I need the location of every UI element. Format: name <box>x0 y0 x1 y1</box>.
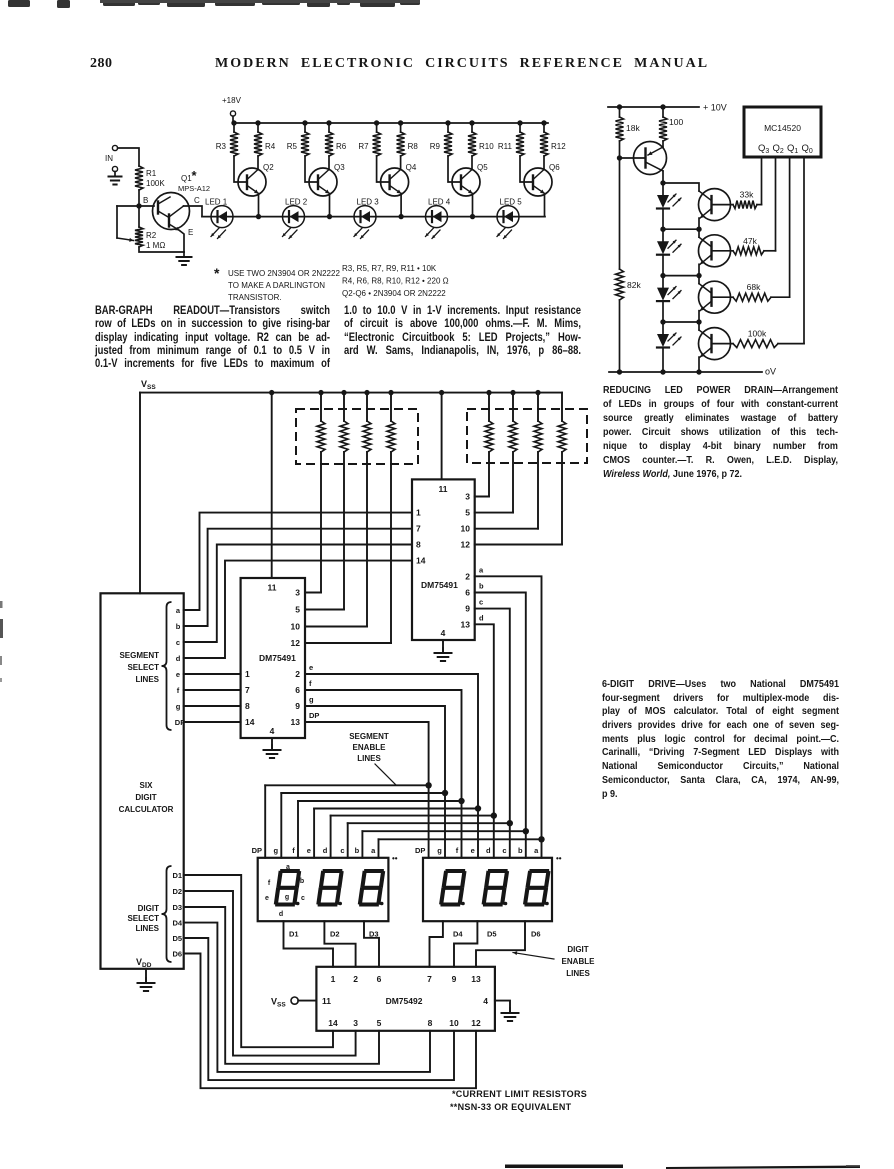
wire R9 to base Q5 <box>448 156 461 182</box>
wire emitter Q4 to LED row <box>400 194 402 217</box>
LED LED 3 <box>354 206 376 228</box>
wire R6 to collector Q3 <box>328 156 330 170</box>
wire segment DP calculator to DM75491 left pin <box>184 721 241 723</box>
wire segment b from DM75491 right <box>475 593 526 832</box>
wire 0V rail <box>609 371 762 373</box>
svg-text:ENABLE: ENABLE <box>562 957 596 966</box>
svg-text:LED 3: LED 3 <box>357 198 380 207</box>
transistor Q1 MPS-A12 darlington <box>153 193 190 230</box>
wire resistor right 2 to DM75491 pin <box>512 452 514 513</box>
brace segment select <box>162 602 172 730</box>
wire resistor left 2 to DM75491 pin <box>343 452 345 610</box>
resistor base 33k <box>712 204 734 206</box>
svg-text:4: 4 <box>270 726 275 736</box>
wire DM75491 left pin 11 to rail <box>269 390 274 395</box>
svg-text:R8: R8 <box>408 142 419 151</box>
svg-text:D6: D6 <box>531 930 541 939</box>
brace digit select <box>162 866 172 962</box>
wire group 3 top <box>663 276 699 284</box>
svg-text:8: 8 <box>416 540 421 550</box>
scan artifact left margin <box>0 601 3 608</box>
LED LED 2 <box>283 206 305 228</box>
light arrows LED 4 <box>426 228 434 237</box>
segment enable bus line f3 <box>298 800 462 802</box>
wire R1 to R2 <box>138 190 140 227</box>
svg-text:18k: 18k <box>626 123 640 133</box>
light arrows LED 1 <box>211 228 219 237</box>
resistor 18k <box>616 117 624 141</box>
wire DM75491 right out 1 <box>475 496 489 498</box>
svg-text:DP: DP <box>309 711 319 720</box>
light arrows LED 3 <box>354 228 362 237</box>
svg-text:+18V: +18V <box>222 96 242 105</box>
wire top +18V rail <box>233 122 548 124</box>
svg-text:3: 3 <box>353 1018 358 1028</box>
svg-text:68k: 68k <box>747 282 761 292</box>
arrow digit enable <box>513 953 554 960</box>
wire emitter Q5 to LED row <box>472 194 474 217</box>
svg-text:••: •• <box>556 854 562 863</box>
wire Vss supply rail <box>140 392 562 394</box>
arrow segment enable <box>375 764 396 785</box>
svg-text:e: e <box>471 846 475 855</box>
svg-text:C: C <box>194 196 200 205</box>
transistor Q5 2N3904 <box>452 168 480 196</box>
wire left branch vertical <box>619 107 621 117</box>
wire digit enable D6 <box>476 921 525 967</box>
seven segment digit 1 <box>282 869 298 873</box>
svg-text:d: d <box>323 846 328 855</box>
resistor R6 220 <box>326 120 331 125</box>
svg-text:f: f <box>268 880 271 887</box>
svg-text:7: 7 <box>416 524 421 534</box>
light arrows LED 1 <box>668 194 676 202</box>
wire R2 wiper to base node <box>117 205 139 207</box>
wire R4 to collector Q2 <box>257 156 259 170</box>
node B base of Q1 <box>136 203 141 208</box>
svg-text:9: 9 <box>452 974 457 984</box>
wire digit D6 to DM75492 <box>184 954 476 1089</box>
ground Q1 emitter <box>183 252 185 257</box>
svg-text:D3: D3 <box>173 903 183 912</box>
svg-text:a: a <box>479 565 484 574</box>
wire Q0 output <box>803 157 805 344</box>
wire Q1 emitter <box>180 231 185 253</box>
svg-text:R1: R1 <box>146 169 157 178</box>
wire digit D4 to DM75492 <box>184 923 430 1072</box>
svg-text:12: 12 <box>291 638 301 648</box>
seven segment digit 6 <box>532 869 548 873</box>
terminal input jack low <box>112 166 117 171</box>
svg-text:100k: 100k <box>748 329 767 339</box>
svg-text:14: 14 <box>245 717 255 727</box>
wire resistor left 1 to DM75491 pin <box>320 452 322 593</box>
scan streak bottom right <box>666 1166 860 1169</box>
wire 82k to 0V rail <box>619 300 621 372</box>
svg-text:LED 4: LED 4 <box>428 198 451 207</box>
svg-text:1: 1 <box>331 974 336 984</box>
svg-text:14: 14 <box>416 556 426 566</box>
svg-text:MPS-A12: MPS-A12 <box>178 184 210 193</box>
wire DM75491 left out 4 <box>305 642 391 644</box>
svg-text:D5: D5 <box>173 934 183 943</box>
display module 2 box <box>423 858 552 921</box>
wire segment f calculator to DM75491 left pin <box>184 689 241 691</box>
svg-text:D4: D4 <box>173 919 183 928</box>
svg-text:LINES: LINES <box>357 754 381 763</box>
svg-text:100K: 100K <box>146 179 165 188</box>
svg-text:R10: R10 <box>479 142 494 151</box>
svg-text:c: c <box>502 846 506 855</box>
svg-text:D1: D1 <box>289 930 299 939</box>
resistor R7 10K <box>374 120 379 125</box>
wire bus 5 to display 2 <box>493 816 495 858</box>
segment enable bus line 5 <box>331 815 494 817</box>
wire digit D3 to DM75492 <box>184 907 379 1064</box>
svg-text:13: 13 <box>461 619 471 629</box>
svg-text:b: b <box>300 878 304 885</box>
svg-text:SELECT: SELECT <box>127 663 159 672</box>
transistor shunt NPN 3 <box>699 281 731 313</box>
resistor base 47k <box>712 250 734 252</box>
seven segment digit 2 <box>325 869 341 873</box>
svg-text:6: 6 <box>377 974 382 984</box>
wire group 4 top <box>663 322 699 330</box>
wire bus 1 to display 2 <box>428 785 430 858</box>
LED 4 of chain <box>657 334 669 347</box>
terminal IN <box>112 145 117 150</box>
svg-text:R6: R6 <box>336 142 347 151</box>
resistor R4 220 <box>255 120 260 125</box>
svg-text:VSS: VSS <box>271 997 286 1009</box>
wire bus 2 to display 2 <box>444 793 446 858</box>
svg-text:f: f <box>309 679 312 688</box>
node LED 4 top <box>660 319 665 324</box>
wire segment d calculator to DM75491 right pin <box>184 561 412 658</box>
svg-text:2: 2 <box>295 669 300 679</box>
wire resistor right 1 to DM75491 pin <box>488 452 490 497</box>
svg-text:USE TWO 2N3904 OR 2N2222: USE TWO 2N3904 OR 2N2222 <box>228 269 340 278</box>
wire digit enable D1 <box>284 921 334 967</box>
ground DM75491 right pin 4 <box>442 640 444 652</box>
svg-text:IN: IN <box>105 154 113 163</box>
svg-text:VDD: VDD <box>136 957 152 969</box>
seven segment digit 3 <box>366 869 382 873</box>
svg-text:12: 12 <box>471 1018 481 1028</box>
svg-text:9: 9 <box>295 701 300 711</box>
svg-text:*CURRENT LIMIT RESISTORS: *CURRENT LIMIT RESISTORS <box>452 1089 587 1099</box>
wire Vss down to calculator <box>139 393 141 594</box>
wire bus 8 to display 2 <box>541 839 543 858</box>
svg-text:TO MAKE A DARLINGTON: TO MAKE A DARLINGTON <box>228 281 325 290</box>
current limit resistor left 3 <box>364 390 369 395</box>
svg-text:ENABLE: ENABLE <box>353 743 387 752</box>
wire R2 bottom <box>139 247 184 252</box>
svg-text:5: 5 <box>465 508 470 518</box>
svg-text:12: 12 <box>461 540 471 550</box>
segment enable bus line 8 <box>379 838 542 840</box>
light arrows LED 4 <box>668 333 676 341</box>
svg-text:R5: R5 <box>287 142 298 151</box>
resistor R9 10K <box>445 120 450 125</box>
svg-text:B: B <box>143 196 148 205</box>
segment enable bus line 7 <box>362 830 525 832</box>
svg-text:13: 13 <box>471 974 481 984</box>
node LED 2 top <box>660 227 665 232</box>
resistor R8 220 <box>398 120 403 125</box>
wire R3 to base Q2 <box>234 156 247 182</box>
svg-text:SELECT: SELECT <box>127 914 159 923</box>
svg-text:82k: 82k <box>627 280 641 290</box>
wire R11 to base Q6 <box>520 156 533 182</box>
wire DM75491 left out 1 <box>305 592 321 594</box>
resistor R2 1M pot <box>135 227 143 247</box>
wire +10V rail <box>608 106 699 108</box>
wire emitter Q3 to LED row <box>329 194 331 217</box>
wire resistor right 3 to DM75491 pin <box>537 452 539 529</box>
wire segment e calculator to DM75491 left pin <box>184 673 241 675</box>
svg-text:e: e <box>309 663 313 672</box>
resistor R11 10K <box>517 120 522 125</box>
svg-text:D1: D1 <box>173 871 183 880</box>
svg-text:9: 9 <box>465 604 470 614</box>
svg-text:R11: R11 <box>498 142 513 151</box>
svg-text:1: 1 <box>245 669 250 679</box>
node LED 1 top <box>660 180 665 185</box>
segment enable bus line DP1 <box>265 784 428 786</box>
svg-text:SEGMENT: SEGMENT <box>119 651 159 660</box>
svg-text:D2: D2 <box>173 887 183 896</box>
wire segment c from DM75491 right <box>475 609 510 824</box>
svg-text:DM75491: DM75491 <box>421 580 458 590</box>
wire bus 3 to display 2 <box>461 801 463 858</box>
current limit resistor left 1 <box>318 390 323 395</box>
wire emitter Q2 to LED row <box>258 194 260 217</box>
header title <box>215 56 709 72</box>
svg-text:DM75492: DM75492 <box>386 996 423 1006</box>
svg-text:e: e <box>176 670 180 679</box>
resistor R3 10K <box>231 120 236 125</box>
svg-text:R9: R9 <box>430 142 441 151</box>
wire group 1 top <box>663 183 699 191</box>
svg-text:TRANSISTOR.: TRANSISTOR. <box>228 293 282 302</box>
wire R7 to base Q4 <box>377 156 390 182</box>
svg-text:8: 8 <box>428 1018 433 1028</box>
svg-text:a: a <box>176 606 181 615</box>
light arrows LED 3 <box>668 287 676 295</box>
wire DM75491 right out 4 <box>475 544 562 546</box>
svg-text:oV: oV <box>765 367 776 377</box>
wire bus 7 to display 1 <box>361 831 363 858</box>
wire emitter Q6 to LED row <box>544 194 546 217</box>
wire bus 6 to display 2 <box>509 823 511 858</box>
svg-text:f: f <box>456 846 459 855</box>
wire bus 4 to display 1 <box>313 809 315 858</box>
transistor Q3 2N3904 <box>309 168 337 196</box>
wire DM75491 right out 3 <box>475 528 538 530</box>
svg-text:11: 11 <box>322 996 331 1006</box>
wire bus 8 to display 1 <box>378 839 380 858</box>
resistor 82k <box>616 269 624 300</box>
wire DM75491 right out 2 <box>475 512 513 514</box>
svg-text:LINES: LINES <box>135 675 159 684</box>
svg-text:b: b <box>518 846 523 855</box>
wire digit D5 to DM75492 <box>184 938 454 1080</box>
resistor base 68k <box>712 296 734 298</box>
svg-text:1 MΩ: 1 MΩ <box>146 241 165 250</box>
svg-text:c: c <box>301 895 305 902</box>
resistor R5 10K <box>302 120 307 125</box>
transistor Q6 2N3904 <box>524 168 552 196</box>
svg-text:Q4: Q4 <box>406 163 417 172</box>
svg-text:6: 6 <box>295 685 300 695</box>
seven segment digit 5 <box>490 869 506 873</box>
svg-text:Q0: Q0 <box>802 143 813 155</box>
ground input <box>114 172 116 177</box>
svg-text:SEGMENT: SEGMENT <box>349 732 389 741</box>
svg-text:LINES: LINES <box>566 969 590 978</box>
wire segment g calculator to DM75491 left pin <box>184 705 241 707</box>
display module 1 box <box>258 858 389 921</box>
box six digit calculator <box>101 593 184 969</box>
svg-text:DP: DP <box>415 846 425 855</box>
LED 1 of chain <box>657 195 669 208</box>
svg-text:g: g <box>176 702 181 711</box>
wire segment a from DM75491 right <box>475 576 542 839</box>
ground DM75492 pin 4 <box>495 1001 510 1012</box>
wire segment d from DM75491 right <box>475 624 494 815</box>
svg-text:LED 1: LED 1 <box>205 198 228 207</box>
wire Q3 output <box>761 157 763 205</box>
wire segment a calculator to DM75491 right pin <box>184 513 412 610</box>
svg-text:R4, R6, R8, R10, R12 • 220 Ω: R4, R6, R8, R10, R12 • 220 Ω <box>342 277 449 286</box>
wire digit enable D2 <box>324 921 355 967</box>
wire base Q1 <box>139 205 154 207</box>
svg-text:a: a <box>286 864 290 871</box>
wire resistor left 4 to DM75491 pin <box>390 452 392 643</box>
current limit resistor right 4 <box>561 393 563 421</box>
transistor shunt NPN 1 <box>699 189 731 221</box>
svg-text:R2: R2 <box>146 231 157 240</box>
svg-text:*: * <box>192 168 198 183</box>
wire segment c calculator to DM75491 right pin <box>184 545 412 643</box>
transistor shunt NPN 4 <box>699 328 731 360</box>
svg-text:11: 11 <box>439 484 448 494</box>
wire bus 5 to display 1 <box>330 816 332 858</box>
svg-text:2: 2 <box>465 571 470 581</box>
wire digit enable D5 <box>454 921 477 967</box>
svg-text:6: 6 <box>465 588 470 598</box>
LED LED 5 <box>497 206 519 228</box>
transistor Q4 2N3904 <box>381 168 409 196</box>
svg-text:3: 3 <box>465 492 470 502</box>
svg-text:Q2: Q2 <box>773 143 784 155</box>
svg-text:100: 100 <box>669 117 683 127</box>
LED 2 of chain <box>657 241 669 254</box>
svg-text:SIX: SIX <box>140 781 154 790</box>
wire segment f from DM75491 left <box>305 690 462 801</box>
svg-text:14: 14 <box>328 1018 338 1028</box>
svg-text:e: e <box>307 846 311 855</box>
svg-text:••: •• <box>392 854 398 863</box>
svg-text:*: * <box>214 265 220 281</box>
current limit resistor left 2 <box>341 390 346 395</box>
svg-text:10: 10 <box>449 1018 459 1028</box>
resistor base 100k <box>712 343 734 345</box>
wire segment b calculator to DM75491 right pin <box>184 529 412 626</box>
wire segment g from DM75491 left <box>305 706 445 793</box>
svg-text:g: g <box>437 846 442 855</box>
svg-text:4: 4 <box>483 996 488 1006</box>
svg-text:f: f <box>292 846 295 855</box>
wire digit enable D4 <box>430 921 443 967</box>
wire bus 2 to display 1 <box>280 793 282 858</box>
wire 100 ohm branch <box>662 107 664 117</box>
svg-text:c: c <box>340 846 344 855</box>
svg-text:D5: D5 <box>487 930 497 939</box>
svg-text:Q1: Q1 <box>787 143 798 155</box>
wire segment DP from DM75491 left <box>305 722 429 785</box>
current limit resistor right 3 <box>535 390 540 395</box>
wire DM75491 left out 3 <box>305 626 367 628</box>
light arrows LED 2 <box>668 240 676 248</box>
wire segment e from DM75491 left <box>305 674 478 809</box>
wire DM75491 right pin 11 to rail <box>439 390 444 395</box>
wire group 2 top <box>663 229 699 237</box>
light arrows LED 2 <box>283 228 291 237</box>
IC U1 DM75491 left <box>241 578 305 738</box>
svg-text:8: 8 <box>245 701 250 711</box>
svg-text:R12: R12 <box>551 142 566 151</box>
svg-text:2: 2 <box>353 974 358 984</box>
svg-text:47k: 47k <box>743 236 757 246</box>
wire DM75491 left out 2 <box>305 609 344 611</box>
svg-text:E: E <box>188 228 193 237</box>
wire R12 to collector Q6 <box>543 156 545 170</box>
current limit resistor right 2 <box>510 390 515 395</box>
LED 3 of chain <box>657 288 669 301</box>
wire bus 4 to display 2 <box>477 809 479 858</box>
svg-text:5: 5 <box>377 1018 382 1028</box>
svg-text:Q2: Q2 <box>263 163 274 172</box>
svg-text:13: 13 <box>291 717 301 727</box>
wire digit D2 to DM75492 <box>184 891 356 1056</box>
caption reducing led power drain <box>603 384 838 482</box>
wire R10 to collector Q5 <box>471 156 473 170</box>
svg-text:7: 7 <box>245 685 250 695</box>
svg-text:b: b <box>479 582 484 591</box>
svg-text:11: 11 <box>268 583 277 593</box>
wire IN to R1 <box>118 148 139 166</box>
svg-text:DIGIT: DIGIT <box>138 904 159 913</box>
svg-text:D6: D6 <box>173 950 183 959</box>
LED LED 1 <box>211 206 233 228</box>
segment enable bus line e4 <box>314 808 478 810</box>
wire 18k to 82k <box>619 141 621 269</box>
node base PNP <box>617 155 622 160</box>
ground DM75491 left pin 4 <box>271 738 273 750</box>
svg-text:Q3: Q3 <box>758 143 769 155</box>
caption bar-graph readout col 2 <box>344 304 581 357</box>
wire R8 to collector Q4 <box>400 156 402 170</box>
wire digit enable D3 <box>364 921 379 967</box>
svg-text:MC14520: MC14520 <box>764 123 801 133</box>
svg-text:d: d <box>486 846 491 855</box>
wire bus 1 to display 1 <box>264 785 266 858</box>
svg-text:d: d <box>279 911 283 918</box>
wire LED row <box>202 216 545 218</box>
svg-text:R3: R3 <box>216 142 227 151</box>
